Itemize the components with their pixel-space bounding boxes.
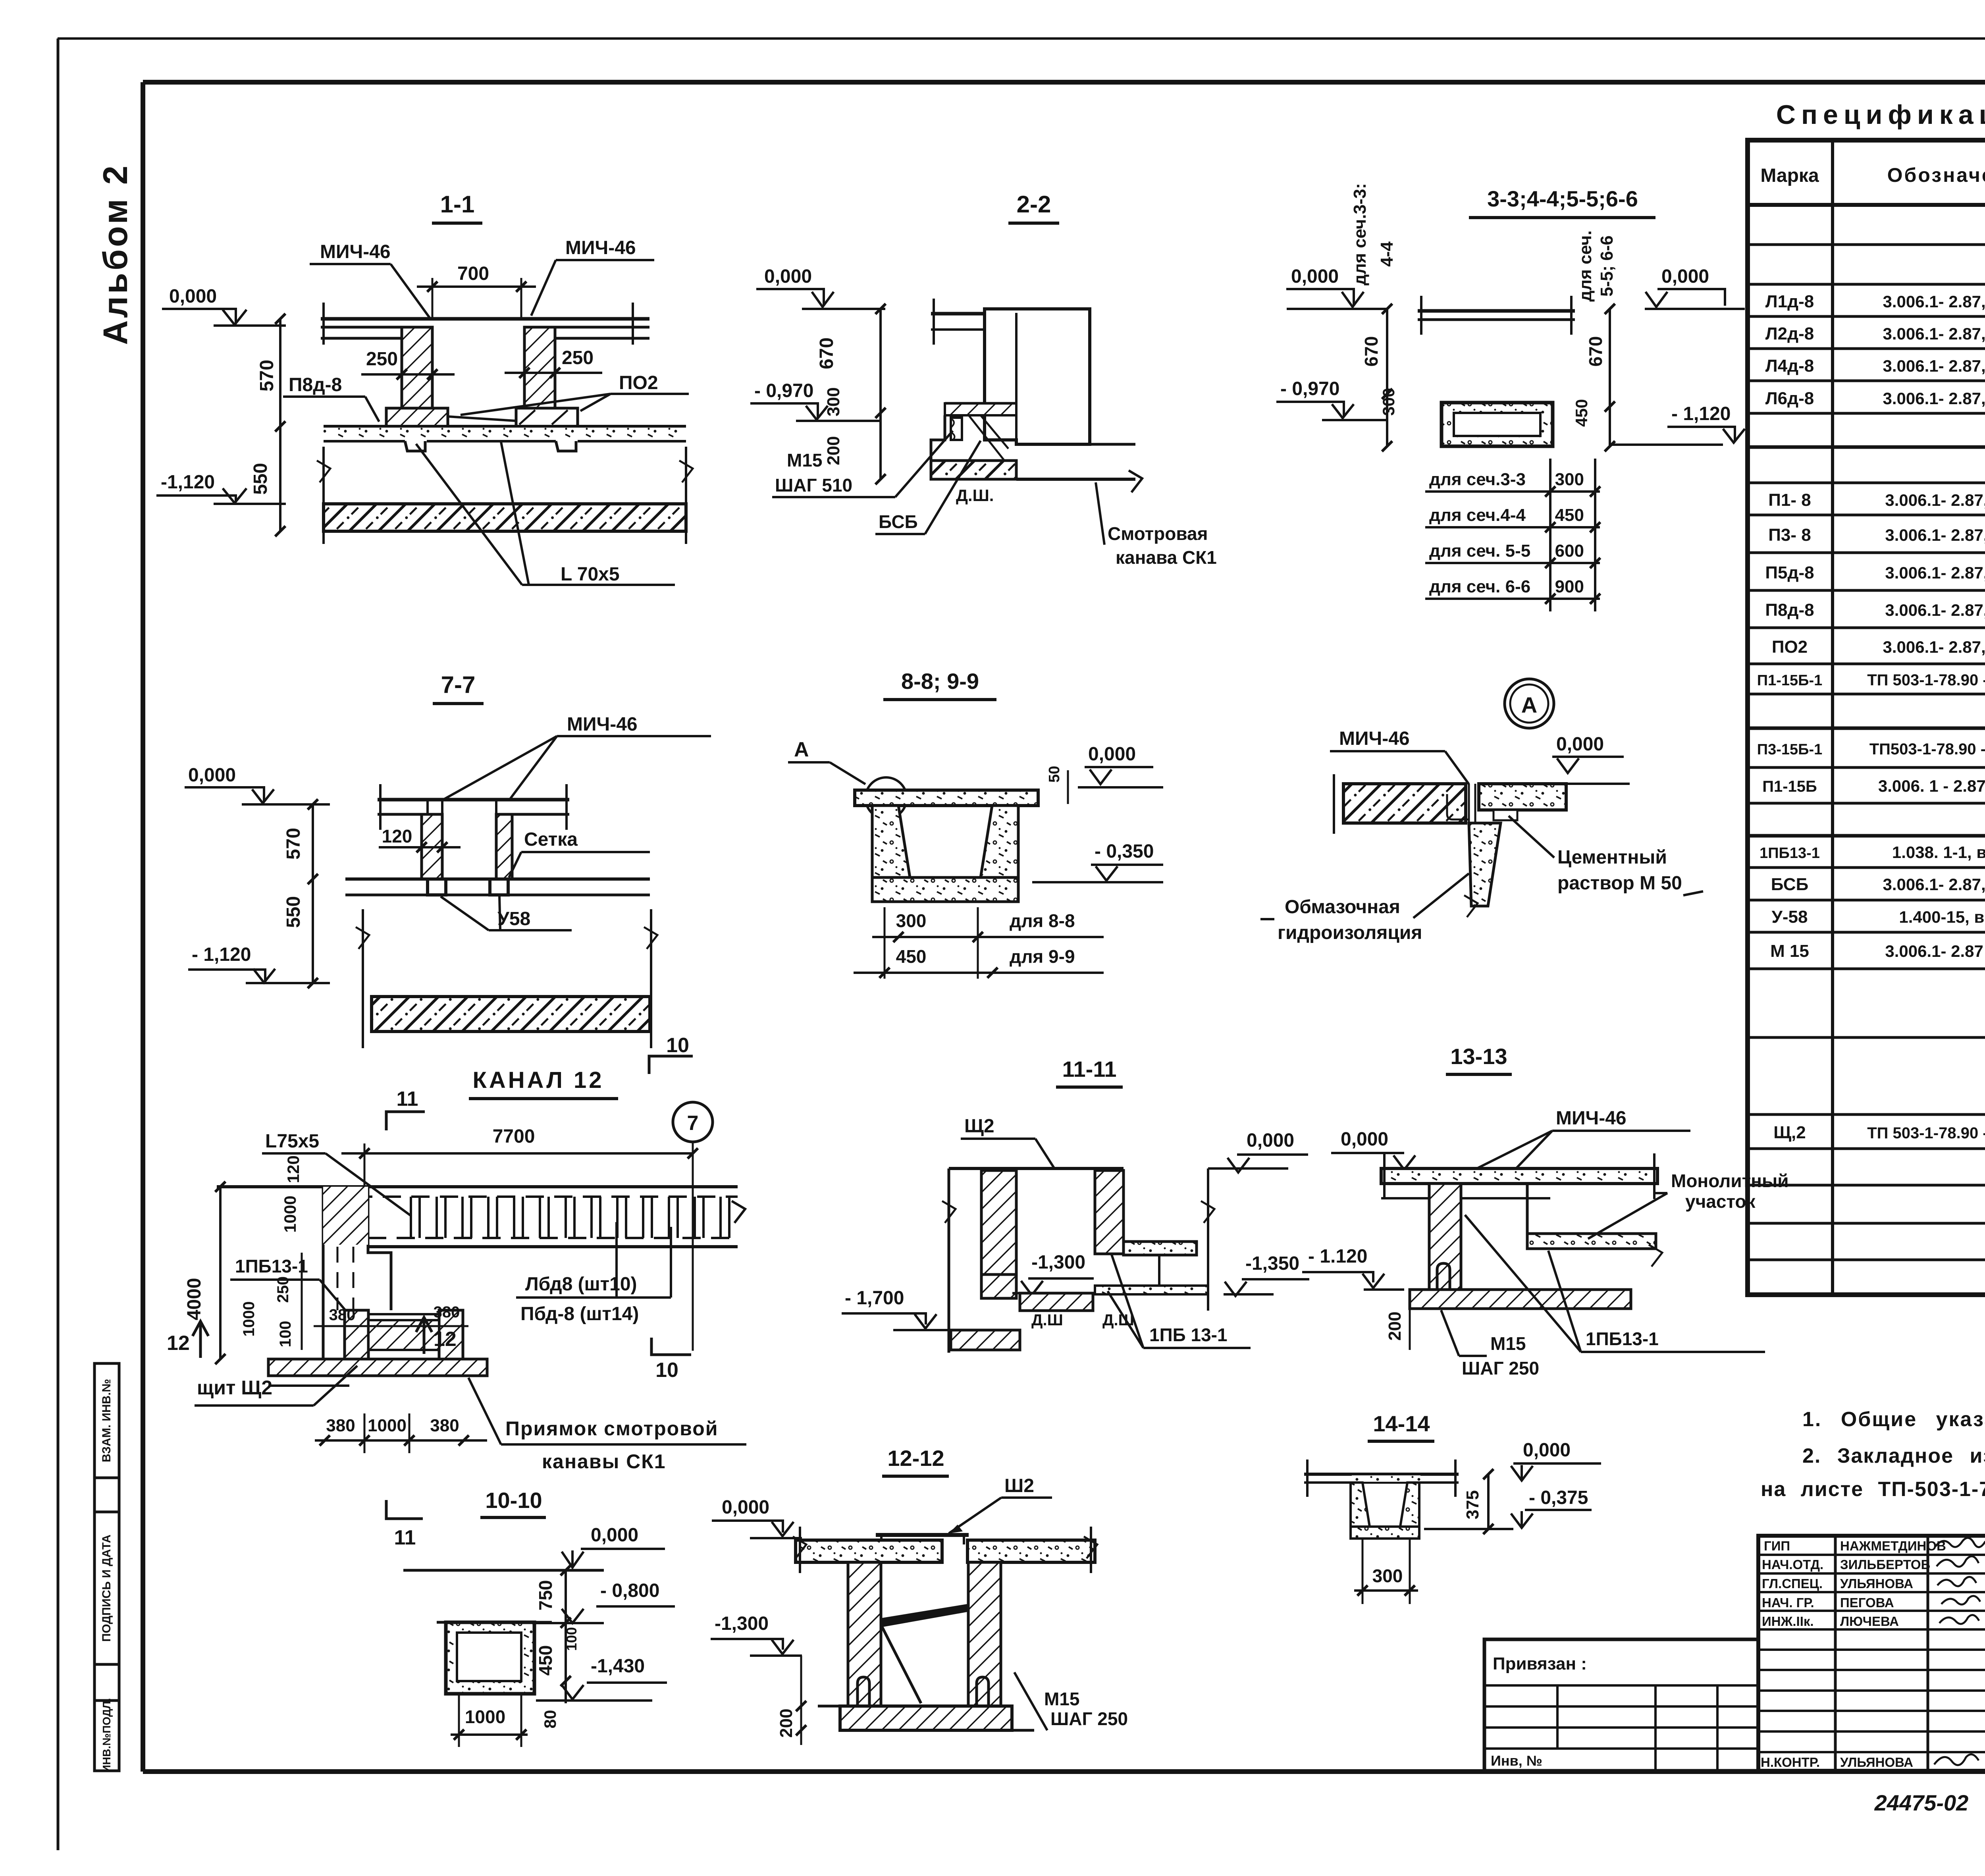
svg-text:375: 375 <box>1463 1490 1482 1519</box>
svg-text:3.006.1- 2.87, вып.7: 3.006.1- 2.87, вып.7 <box>1883 875 1985 894</box>
svg-text:2. Закладное изделие МИЧ-46: 2. Закладное изделие МИЧ-46 учтено в спе… <box>1802 1444 1985 1467</box>
channel trough walls <box>872 806 910 877</box>
svg-text:Приямок смотровой: Приямок смотровой <box>505 1417 719 1440</box>
svg-text:10: 10 <box>655 1359 678 1382</box>
stamp table signatures <box>1758 1536 1985 1771</box>
table row lines <box>1748 243 1985 246</box>
svg-text:10: 10 <box>666 1034 689 1057</box>
axis circle 7 <box>673 1102 713 1142</box>
svg-text:- 0,970: - 0,970 <box>1280 378 1339 399</box>
vertical dim 670/300/200 <box>879 309 882 479</box>
svg-text:11-11: 11-11 <box>1062 1057 1116 1082</box>
svg-text:0,000: 0,000 <box>722 1497 769 1518</box>
svg-text:НАЧ.ОТД.: НАЧ.ОТД. <box>1762 1557 1823 1572</box>
svg-text:600: 600 <box>1555 541 1584 561</box>
svg-text:0,000: 0,000 <box>1291 266 1339 287</box>
svg-text:Пбд-8 (шт14): Пбд-8 (шт14) <box>520 1303 639 1325</box>
pit lower walls <box>345 1310 368 1359</box>
svg-text:НАЖМЕТДИНОВ: НАЖМЕТДИНОВ <box>1840 1539 1946 1553</box>
svg-text:для сеч. 5-5: для сеч. 5-5 <box>1429 541 1530 561</box>
svg-text:М 15: М 15 <box>1770 941 1809 961</box>
left margin stamp column: ИНВ. № ПОДЛ. <box>94 1698 119 1773</box>
svg-text:1-1: 1-1 <box>440 191 475 218</box>
wall right hatched <box>496 814 512 879</box>
svg-text:380: 380 <box>326 1416 355 1435</box>
svg-text:ПО2: ПО2 <box>1772 637 1808 657</box>
right slabs <box>1124 1242 1197 1255</box>
svg-text:ЛЮЧЕВА: ЛЮЧЕВА <box>1840 1614 1899 1629</box>
top slab with concrete <box>855 790 1038 806</box>
svg-text:МИЧ-46: МИЧ-46 <box>320 241 391 262</box>
outer thin border top <box>58 37 1985 40</box>
slab double line <box>1304 1473 1459 1476</box>
svg-text:У-58: У-58 <box>1772 907 1808 927</box>
svg-text:МИЧ-46: МИЧ-46 <box>565 237 636 258</box>
svg-text:1000: 1000 <box>465 1706 505 1727</box>
svg-text:-1,120: -1,120 <box>161 472 215 493</box>
svg-text:НАЧ. ГР.: НАЧ. ГР. <box>1762 1595 1814 1610</box>
plate edge between pads <box>448 416 516 421</box>
svg-text:3.006. 1 - 2.87, вып.2: 3.006. 1 - 2.87, вып.2 <box>1878 777 1985 795</box>
lotok trough <box>1351 1483 1370 1527</box>
signature squiggles <box>1934 1538 1985 1765</box>
floor lines <box>345 877 650 881</box>
svg-text:7: 7 <box>687 1112 699 1135</box>
svg-text:- 0,375: - 0,375 <box>1529 1487 1588 1508</box>
floor top double line <box>321 317 649 321</box>
svg-text:1ПБ13-1: 1ПБ13-1 <box>235 1256 308 1276</box>
svg-text:МИЧ-46: МИЧ-46 <box>1556 1108 1627 1129</box>
rebar hooks <box>858 1677 869 1706</box>
svg-text:-1,350: -1,350 <box>1245 1253 1299 1274</box>
svg-text:100: 100 <box>277 1321 294 1348</box>
svg-text:4000: 4000 <box>184 1278 205 1321</box>
bottom slab <box>840 1706 1012 1730</box>
table column lines <box>1831 140 1834 1295</box>
svg-text:ШАГ 510: ШАГ 510 <box>775 475 852 496</box>
svg-text:для сеч. 6-6: для сеч. 6-6 <box>1429 577 1530 596</box>
channel box <box>446 1622 534 1694</box>
svg-text:1.038. 1-1, вып. 1: 1.038. 1-1, вып. 1 <box>1892 843 1985 862</box>
ground hatched strip <box>372 997 650 1032</box>
svg-text:3.006.1- 2.87, вып.1: 3.006.1- 2.87, вып.1 <box>1883 324 1985 343</box>
svg-text:0,000: 0,000 <box>1556 734 1604 755</box>
floor slab underside lines <box>321 337 402 340</box>
svg-text:ВЗАМ. ИНВ.№: ВЗАМ. ИНВ.№ <box>100 1379 113 1462</box>
svg-text:- 0,970: - 0,970 <box>754 380 813 401</box>
plan dashed hidden lines <box>326 1195 738 1198</box>
svg-text:670: 670 <box>1361 336 1382 367</box>
vertical dims 670 <box>1386 309 1388 446</box>
svg-text:раствор М 50: раствор М 50 <box>1557 873 1682 894</box>
svg-text:ПО2: ПО2 <box>619 372 658 393</box>
svg-text:0,000: 0,000 <box>1661 266 1709 287</box>
svg-text:М15: М15 <box>787 450 822 470</box>
svg-text:Цементный: Цементный <box>1557 847 1667 868</box>
top line over walls <box>378 798 569 802</box>
svg-text:0,000: 0,000 <box>764 266 812 287</box>
svg-text:- 1.120: - 1.120 <box>1308 1246 1367 1267</box>
привязан block <box>1484 1639 1758 1771</box>
svg-text:П8д-8: П8д-8 <box>1765 600 1814 620</box>
svg-text:250: 250 <box>562 347 594 368</box>
left top slab <box>378 813 428 816</box>
svg-text:на листе ТП-503-1-78-90-АР22: на листе ТП-503-1-78-90-АР22 <box>1761 1478 1985 1501</box>
svg-text:Монолитный: Монолитный <box>1671 1170 1789 1191</box>
svg-text:Сетка: Сетка <box>524 829 578 850</box>
floor line right of wall <box>1016 478 1135 481</box>
svg-text:300: 300 <box>824 387 843 416</box>
svg-text:Обмазочная: Обмазочная <box>1285 897 1400 918</box>
rebar hook <box>1437 1263 1450 1290</box>
floor slab hatched <box>1020 1293 1093 1311</box>
svg-text:для 9-9: для 9-9 <box>1010 946 1075 967</box>
svg-text:ШАГ 250: ШАГ 250 <box>1462 1358 1539 1379</box>
svg-text:ПОДПИСЬ И ДАТА: ПОДПИСЬ И ДАТА <box>100 1535 113 1642</box>
main frame left <box>141 82 145 1772</box>
svg-text:670: 670 <box>816 337 837 369</box>
svg-text:L 70х5: L 70х5 <box>561 564 620 585</box>
bottom annotation row <box>1874 1790 1985 1823</box>
svg-text:ЗИЛЬБЕРТОВ: ЗИЛЬБЕРТОВ <box>1840 1557 1930 1572</box>
svg-text:3.006.1- 2.87, вып.1: 3.006.1- 2.87, вып.1 <box>1883 389 1985 408</box>
svg-text:570: 570 <box>283 828 304 860</box>
dark wedge in cavity <box>882 1604 967 1627</box>
svg-text:0,000: 0,000 <box>591 1525 638 1546</box>
svg-text:ИНЖ.IIк.: ИНЖ.IIк. <box>1762 1614 1814 1629</box>
svg-text:120: 120 <box>284 1155 303 1183</box>
svg-text:для 8-8: для 8-8 <box>1010 910 1075 931</box>
svg-text:П1- 8: П1- 8 <box>1768 490 1811 510</box>
svg-text:ШАГ 250: ШАГ 250 <box>1050 1708 1128 1729</box>
svg-text:80: 80 <box>541 1710 559 1729</box>
top edge line <box>949 1167 1124 1170</box>
svg-text:А: А <box>1521 692 1537 717</box>
svg-text:3.006.1- 2.87,вып.2: 3.006.1- 2.87,вып.2 <box>1885 526 1985 544</box>
svg-text:3.006.1- 2.87, вып.1: 3.006.1- 2.87, вып.1 <box>1883 292 1985 311</box>
svg-text:380: 380 <box>430 1416 459 1435</box>
svg-text:3.006.1- 2.87, вып.1: 3.006.1- 2.87, вып.1 <box>1883 357 1985 375</box>
svg-text:11: 11 <box>397 1087 418 1111</box>
svg-text:Альбом 2: Альбом 2 <box>96 163 135 345</box>
svg-text:П1-15Б: П1-15Б <box>1762 778 1817 795</box>
svg-text:3-3;4-4;5-5;6-6: 3-3;4-4;5-5;6-6 <box>1487 186 1638 211</box>
svg-text:П8д-8: П8д-8 <box>289 374 342 395</box>
svg-text:Д.Ш: Д.Ш <box>1031 1311 1063 1329</box>
svg-text:ГЛ.СПЕЦ.: ГЛ.СПЕЦ. <box>1762 1576 1823 1591</box>
channel box section <box>1442 403 1553 446</box>
svg-text:БСБ: БСБ <box>1771 875 1808 894</box>
svg-text:250: 250 <box>274 1276 292 1303</box>
svg-text:щит Щ2: щит Щ2 <box>197 1377 272 1399</box>
svg-text:12-12: 12-12 <box>887 1446 944 1471</box>
svg-text:300: 300 <box>1372 1566 1403 1586</box>
svg-text:- 0,350: - 0,350 <box>1095 841 1154 862</box>
svg-text:-1,300: -1,300 <box>715 1613 769 1634</box>
table outer border <box>1748 140 1985 1295</box>
svg-text:1000: 1000 <box>281 1195 299 1232</box>
svg-text:L75х5: L75х5 <box>265 1131 319 1152</box>
svg-text:1ПБ13-1: 1ПБ13-1 <box>1760 845 1820 862</box>
svg-text:4-4: 4-4 <box>1377 241 1397 267</box>
foundation block <box>951 1330 1020 1350</box>
svg-text:450: 450 <box>896 946 927 967</box>
left wall tall <box>948 1168 950 1353</box>
svg-text:Обозначение: Обозначение <box>1887 164 1985 186</box>
section mark 11 bottom <box>386 1500 423 1519</box>
channel bottom slab <box>872 877 1018 902</box>
building wall outline <box>985 309 1090 444</box>
right slab concrete <box>1479 784 1566 810</box>
svg-text:11: 11 <box>394 1526 416 1549</box>
svg-text:П1-15Б-1: П1-15Б-1 <box>1757 672 1822 689</box>
svg-text:570: 570 <box>256 360 278 391</box>
svg-text:-1,430: -1,430 <box>591 1656 645 1677</box>
svg-text:1ПБ13-1: 1ПБ13-1 <box>1586 1328 1659 1349</box>
svg-text:ТП503-1-78.90 - КЖ.И,27: ТП503-1-78.90 - КЖ.И,27 <box>1869 740 1985 758</box>
section mark 10 bottom <box>651 1338 691 1355</box>
left wall <box>848 1562 881 1706</box>
svg-text:- 0,800: - 0,800 <box>600 1580 659 1601</box>
svg-text:7-7: 7-7 <box>441 671 476 698</box>
left margin stamp column: gap box <box>94 1478 119 1512</box>
svg-text:12: 12 <box>434 1328 457 1351</box>
wall below trapezoid <box>1469 823 1501 906</box>
svg-text:450: 450 <box>535 1645 556 1676</box>
svg-text:Н.КОНТР.: Н.КОНТР. <box>1761 1755 1820 1770</box>
svg-text:200: 200 <box>777 1708 796 1737</box>
svg-text:2-2: 2-2 <box>1017 191 1051 218</box>
slab double line <box>1418 309 1575 313</box>
channel trough in section 2-2 <box>945 402 1016 405</box>
svg-text:3.006.1- 2.87,вып.2: 3.006.1- 2.87,вып.2 <box>1885 491 1985 509</box>
svg-text:24475-02: 24475-02 <box>1874 1790 1969 1815</box>
svg-text:- 1,120: - 1,120 <box>192 944 251 965</box>
channel wall left hatched <box>402 327 432 408</box>
plan bottom line <box>368 1245 738 1248</box>
table header row line <box>1748 203 1985 207</box>
svg-text:450: 450 <box>1555 505 1584 525</box>
svg-text:участок: участок <box>1685 1191 1756 1212</box>
svg-text:Лбд8 (шт10): Лбд8 (шт10) <box>525 1274 637 1295</box>
svg-text:1. Общие указания даны на: 1. Общие указания даны на листе 17. <box>1802 1408 1985 1431</box>
svg-text:Ш2: Ш2 <box>1004 1475 1034 1496</box>
svg-text:Марка: Марка <box>1760 165 1819 186</box>
svg-text:ТП 503-1-78.90 - КЖ.И.34: ТП 503-1-78.90 - КЖ.И.34 <box>1867 1124 1985 1142</box>
left margin stamp column: ПОДПИСЬ И ДАТА <box>94 1512 119 1664</box>
svg-text:50: 50 <box>1046 766 1063 783</box>
vertical dim 570/550 <box>312 804 314 983</box>
floor hatched strip <box>1410 1290 1631 1309</box>
svg-text:У58: У58 <box>497 908 530 929</box>
svg-text:3.006.1- 2.87,вып.2: 3.006.1- 2.87,вып.2 <box>1885 563 1985 582</box>
svg-text:канавы СК1: канавы СК1 <box>542 1450 666 1473</box>
svg-text:ГИП: ГИП <box>1764 1539 1790 1553</box>
svg-text:14-14: 14-14 <box>1373 1411 1430 1436</box>
svg-text:Л1д-8: Л1д-8 <box>1765 292 1814 311</box>
svg-text:0,000: 0,000 <box>1341 1129 1388 1150</box>
right top slab <box>512 813 569 816</box>
svg-text:550: 550 <box>250 463 271 495</box>
svg-text:750: 750 <box>535 1580 556 1611</box>
svg-text:450: 450 <box>1572 399 1591 427</box>
svg-text:3.006.1- 2.87 вып.3: 3.006.1- 2.87 вып.3 <box>1885 942 1985 960</box>
svg-text:0,000: 0,000 <box>1523 1440 1571 1461</box>
svg-text:М15: М15 <box>1490 1333 1526 1354</box>
top slab edge left of wall <box>931 312 985 316</box>
channel wall right hatched <box>524 327 555 408</box>
svg-text:300: 300 <box>896 910 927 931</box>
svg-text:Смотровая: Смотровая <box>1108 523 1208 544</box>
svg-text:10-10: 10-10 <box>485 1488 542 1513</box>
shield on top <box>876 1533 969 1537</box>
svg-text:- 1,700: - 1,700 <box>845 1288 904 1309</box>
svg-text:для сеч.3-3:: для сеч.3-3: <box>1350 183 1370 285</box>
main frame top <box>143 80 1985 85</box>
svg-text:для сеч.: для сеч. <box>1576 230 1595 301</box>
pad under right wall <box>516 408 578 426</box>
svg-text:Щ,2: Щ,2 <box>1773 1123 1806 1142</box>
svg-text:1000: 1000 <box>240 1301 258 1337</box>
svg-text:П3-15Б-1: П3-15Б-1 <box>1757 741 1822 758</box>
dim sub-table <box>1429 470 1584 596</box>
svg-text:канава СК1: канава СК1 <box>1116 547 1217 568</box>
top slab <box>1381 1168 1657 1184</box>
svg-text:-1,300: -1,300 <box>1031 1252 1085 1273</box>
svg-text:Л4д-8: Л4д-8 <box>1765 356 1814 376</box>
sump squares У58 <box>428 879 446 895</box>
svg-text:200: 200 <box>824 436 843 465</box>
top slab left <box>796 1540 942 1562</box>
svg-text:гидроизоляция: гидроизоляция <box>1278 922 1422 943</box>
svg-text:1000: 1000 <box>368 1416 407 1435</box>
svg-text:0,000: 0,000 <box>188 765 236 786</box>
svg-text:13-13: 13-13 <box>1450 1044 1507 1069</box>
svg-text:120: 120 <box>382 826 412 846</box>
svg-text:Спецификация элементов каналов: Спецификация элементов каналов <box>1776 100 1985 130</box>
wall left hatched <box>422 814 442 879</box>
main frame bottom <box>143 1769 1985 1774</box>
svg-text:5-5; 6-6: 5-5; 6-6 <box>1597 235 1617 297</box>
svg-text:МИЧ-46: МИЧ-46 <box>567 714 638 735</box>
svg-text:ИНВ.№ПОДЛ.: ИНВ.№ПОДЛ. <box>100 1698 113 1773</box>
svg-text:3.006.1- 2.87, вып.6: 3.006.1- 2.87, вып.6 <box>1883 638 1985 656</box>
svg-text:7700: 7700 <box>493 1126 535 1147</box>
table body texts <box>1757 216 1985 1288</box>
svg-text:КАНАЛ 12: КАНАЛ 12 <box>472 1067 604 1093</box>
top slab right <box>967 1540 1095 1562</box>
svg-text:0,000: 0,000 <box>1088 744 1136 765</box>
svg-text:Д.Ш.: Д.Ш. <box>956 486 994 505</box>
svg-text:380: 380 <box>329 1306 356 1324</box>
svg-text:670: 670 <box>1585 336 1606 367</box>
svg-text:3.006.1- 2.87,вып.2: 3.006.1- 2.87,вып.2 <box>1885 601 1985 619</box>
svg-text:МИЧ-46: МИЧ-46 <box>1339 728 1410 749</box>
svg-text:Л2д-8: Л2д-8 <box>1765 324 1814 343</box>
central wall <box>1429 1184 1461 1293</box>
svg-text:900: 900 <box>1555 577 1584 596</box>
pad under left wall <box>386 408 448 426</box>
svg-text:М15: М15 <box>1044 1689 1079 1709</box>
svg-text:Л6д-8: Л6д-8 <box>1765 389 1814 408</box>
break marks on walls <box>317 461 330 482</box>
svg-text:200: 200 <box>1385 1311 1405 1340</box>
svg-text:ПЕГОВА: ПЕГОВА <box>1840 1595 1894 1610</box>
svg-text:550: 550 <box>283 896 304 928</box>
svg-text:0,000: 0,000 <box>169 286 217 307</box>
pit floor hatched strip <box>268 1359 487 1376</box>
svg-text:1.400-15, вып.1: 1.400-15, вып.1 <box>1899 908 1985 926</box>
svg-text:300: 300 <box>1379 388 1398 416</box>
joint seam <box>1468 784 1470 823</box>
right wall <box>968 1562 1001 1706</box>
svg-text:250: 250 <box>366 349 398 370</box>
svg-text:700: 700 <box>457 263 489 284</box>
svg-text:ТП 503-1-78.90 - КЖ.И,27: ТП 503-1-78.90 - КЖ.И,27 <box>1867 671 1985 689</box>
svg-text:380: 380 <box>434 1303 460 1321</box>
svg-text:300: 300 <box>1555 470 1584 489</box>
svg-text:А: А <box>794 738 809 761</box>
svg-text:1ПБ 13-1: 1ПБ 13-1 <box>1149 1325 1228 1345</box>
outer thin border left <box>57 39 60 1850</box>
svg-text:12: 12 <box>167 1332 190 1355</box>
node A circle <box>1505 679 1554 728</box>
cover plate joints ladder <box>411 1197 729 1238</box>
svg-text:БСБ: БСБ <box>879 511 918 532</box>
svg-text:0,000: 0,000 <box>1247 1130 1294 1151</box>
svg-text:8-8; 9-9: 8-8; 9-9 <box>901 669 979 694</box>
svg-text:для сеч.3-3: для сеч.3-3 <box>1429 470 1526 489</box>
svg-text:УЛЬЯНОВА: УЛЬЯНОВА <box>1840 1576 1913 1591</box>
plan top line <box>217 1185 738 1188</box>
pit left shaft <box>322 1187 325 1359</box>
svg-text:Привязан :: Привязан : <box>1493 1654 1587 1674</box>
svg-text:100: 100 <box>563 1627 580 1651</box>
right wall <box>1095 1170 1124 1254</box>
bottom slab of channel <box>324 425 686 428</box>
left slab hatched <box>1343 784 1466 823</box>
svg-text:П5д-8: П5д-8 <box>1765 563 1814 582</box>
svg-text:Щ2: Щ2 <box>964 1116 994 1137</box>
svg-text:для сеч.4-4: для сеч.4-4 <box>1429 505 1526 525</box>
ground hatched strip <box>324 504 686 531</box>
left margin stamp column: ВЗАМ. ИНВ. № <box>94 1363 119 1478</box>
svg-text:- 1,120: - 1,120 <box>1671 403 1731 424</box>
left margin stamp column: gap box 2 <box>94 1664 119 1701</box>
right monolith area <box>1526 1184 1529 1234</box>
svg-text:П3- 8: П3- 8 <box>1768 525 1811 545</box>
svg-text:Инв, №: Инв, № <box>1491 1753 1542 1769</box>
svg-text:УЛЬЯНОВА: УЛЬЯНОВА <box>1840 1755 1913 1770</box>
